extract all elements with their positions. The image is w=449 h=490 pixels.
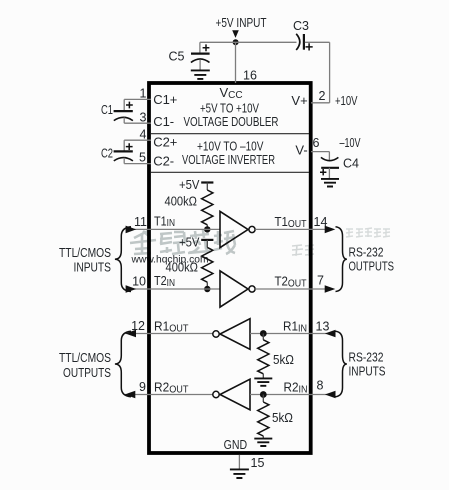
wire R1 junction to 5k: [262, 334, 264, 340]
svg-text:7: 7: [317, 274, 324, 288]
svg-text:3: 3: [140, 110, 147, 124]
wire R1 input: [250, 333, 333, 335]
node junction dot T2 input: [204, 286, 210, 292]
ground below C5: [191, 70, 210, 79]
svg-text:15: 15: [251, 456, 265, 470]
driver T1 bubble: [249, 226, 255, 232]
capacitor C1 plus sign: [126, 102, 133, 109]
svg-text:8: 8: [317, 379, 324, 393]
arrow into pin 8: [325, 391, 336, 399]
svg-text:RS-232: RS-232: [349, 351, 384, 365]
svg-text:OUTPUTS: OUTPUTS: [63, 366, 111, 380]
arrow into pin 10: [126, 285, 137, 293]
node: +5V rail junction dot: [233, 39, 239, 45]
wire 5k to ground (R2): [262, 436, 264, 438]
ground below pin 15: [230, 469, 249, 478]
svg-text:V+: V+: [291, 93, 307, 108]
wire C3 to corner: [305, 41, 330, 43]
wire +5V rail horizontal: [200, 41, 297, 43]
svg-text:5: 5: [139, 151, 146, 165]
watermark right small text line1: [346, 228, 390, 237]
resistor 400k (T1): [202, 190, 213, 225]
capacitor C3 straight plate: [303, 34, 305, 50]
capacitor C1 straight plate: [114, 110, 133, 112]
svg-text:–10V: –10V: [340, 136, 361, 150]
wire corner down to pin 2: [329, 42, 331, 103]
arrow out of pin 14: [325, 226, 336, 234]
wire T2 output: [255, 288, 333, 290]
arrow into pin 11: [126, 226, 137, 234]
receiver R1 bubble: [213, 331, 219, 337]
resistor 5k (R1): [258, 340, 269, 374]
svg-text:C5: C5: [169, 49, 185, 63]
+5V INPUT arrow: [232, 30, 239, 38]
driver T2 triangle: [220, 271, 248, 307]
wire pin16 vertical: [235, 42, 237, 83]
svg-text:OUTPUTS: OUTPUTS: [349, 260, 395, 274]
svg-text:11: 11: [134, 215, 147, 229]
svg-text:12: 12: [131, 319, 145, 333]
capacitor C2 curved plate: [114, 158, 133, 161]
svg-text:GND: GND: [224, 438, 248, 452]
capacitor C4 curved plate: [321, 157, 339, 160]
svg-text:C3: C3: [293, 19, 309, 33]
svg-text:V-: V-: [295, 142, 307, 157]
capacitor C4 straight plate: [321, 167, 339, 169]
svg-text:+10V: +10V: [335, 94, 358, 108]
wire C2 top vertical: [123, 140, 125, 151]
svg-text:400kΩ: 400kΩ: [165, 195, 198, 209]
svg-text:C2+: C2+: [153, 134, 177, 149]
svg-text:+5V TO +10V: +5V TO +10V: [200, 101, 260, 115]
capacitor C1 curved plate: [114, 117, 133, 120]
wire C2 bottom vertical: [123, 158, 125, 164]
wire pin 15: [238, 455, 240, 469]
svg-text:INPUTS: INPUTS: [349, 365, 386, 379]
svg-text:C2-: C2-: [153, 154, 174, 169]
wire C1 bottom vertical: [123, 118, 125, 124]
watermark big characters: [130, 230, 235, 254]
svg-text:16: 16: [243, 69, 257, 83]
wire pin 1 stub: [124, 98, 151, 100]
capacitor C5 plus sign: [203, 44, 210, 51]
wire C5 bottom vertical: [199, 60, 201, 70]
svg-text:+5V INPUT: +5V INPUT: [216, 16, 267, 30]
svg-text:+5V: +5V: [179, 235, 200, 249]
node junction dot T1 input: [204, 226, 210, 232]
wire T1 output: [255, 228, 333, 230]
brace RS-232 inputs: [336, 331, 347, 396]
arrow into pin 13: [325, 330, 336, 338]
svg-text:INPUTS: INPUTS: [74, 261, 112, 275]
driver T1 triangle: [220, 211, 248, 247]
divider line doubler/inverter: [151, 133, 309, 135]
wire 5k to ground (R1): [262, 374, 264, 378]
node junction dot R1 input: [260, 330, 267, 337]
svg-text:5kΩ: 5kΩ: [272, 411, 293, 425]
resistor 400k (T2): [202, 247, 213, 282]
receiver R2 bubble: [213, 391, 219, 397]
ground below 5k (R1): [254, 378, 272, 385]
wire R2 junction to 5k: [262, 395, 264, 403]
arrow out of pin 9: [125, 391, 136, 399]
brace TTL/CMOS inputs: [115, 227, 131, 292]
wire T2 input: [126, 288, 220, 290]
svg-text:+10V TO –10V: +10V TO –10V: [197, 140, 264, 154]
wire C4 top vertical: [328, 152, 330, 161]
capacitor C5 straight plate: [191, 52, 210, 54]
svg-text:RS-232: RS-232: [349, 246, 384, 260]
capacitor C4 plus sign: [320, 169, 326, 175]
svg-text:13: 13: [316, 320, 330, 334]
wire resistor to T1 input junction: [206, 225, 208, 230]
wire C1 top vertical: [123, 99, 125, 110]
wire pin 3 stub: [124, 122, 151, 124]
svg-text:VOLTAGE INVERTER: VOLTAGE INVERTER: [182, 153, 275, 167]
node junction dot R2 input: [260, 391, 267, 398]
divider line inverter/drivers: [151, 171, 309, 173]
capacitor C2 straight plate: [114, 150, 133, 152]
capacitor C5 curved plate: [191, 59, 210, 63]
wire C5 top vertical: [199, 42, 201, 52]
wire pin 6 stub: [311, 151, 329, 153]
wire pin 2 stub: [311, 102, 330, 104]
svg-text:VOLTAGE DOUBLER: VOLTAGE DOUBLER: [184, 115, 279, 129]
driver T2 bubble: [249, 286, 255, 292]
svg-text:C1-: C1-: [153, 114, 174, 129]
svg-text:1: 1: [140, 87, 147, 101]
arrow out of pin 7: [325, 285, 336, 293]
arrow out of pin 12: [125, 330, 136, 338]
svg-text:C2: C2: [101, 147, 113, 161]
ground below 5k (R2): [254, 439, 272, 446]
wire bar to resistor R1pullup: [206, 183, 208, 191]
+5V power bar for T1 pullup: [201, 181, 213, 183]
svg-text:C1+: C1+: [153, 92, 177, 107]
wire C4 bottom vertical: [328, 168, 330, 179]
wire resistor to T2 input junction: [206, 282, 208, 289]
svg-text:2: 2: [319, 89, 326, 103]
svg-text:4: 4: [140, 127, 147, 141]
wire T1 input: [126, 228, 220, 230]
svg-text:C4: C4: [343, 156, 359, 170]
capacitor C2 plus sign: [126, 143, 133, 150]
receiver R2 triangle: [220, 379, 250, 410]
+5V power bar for T2 pullup: [201, 239, 213, 241]
brace TTL/CMOS outputs: [115, 331, 131, 396]
capacitor C3 curved plate: [296, 34, 300, 50]
wire R2 input: [250, 394, 333, 396]
wire R1 output: [126, 333, 213, 335]
wire bar to resistor R2pullup: [206, 240, 208, 248]
svg-text:TTL/CMOS: TTL/CMOS: [59, 351, 111, 365]
brace RS-232 outputs: [336, 227, 347, 292]
wire R2 output: [125, 394, 213, 396]
wire pin 5 stub: [124, 163, 151, 165]
resistor 5k (R2): [258, 402, 269, 436]
svg-text:5kΩ: 5kΩ: [273, 353, 294, 367]
wire pin 4 stub: [124, 139, 151, 141]
svg-text:400kΩ: 400kΩ: [166, 260, 199, 274]
svg-text:10: 10: [132, 274, 146, 288]
svg-text:6: 6: [313, 136, 320, 150]
svg-text:TTL/CMOS: TTL/CMOS: [59, 246, 111, 260]
receiver R1 triangle: [220, 319, 250, 350]
svg-text:+5V: +5V: [179, 178, 200, 192]
IC U1 (MAX232-type) body: [149, 83, 311, 453]
ground below C4: [321, 179, 339, 187]
svg-text:C1: C1: [101, 103, 113, 117]
watermark faint chars near chip border: [292, 245, 314, 256]
svg-text:9: 9: [139, 380, 146, 394]
capacitor C3 plus sign: [306, 43, 313, 50]
